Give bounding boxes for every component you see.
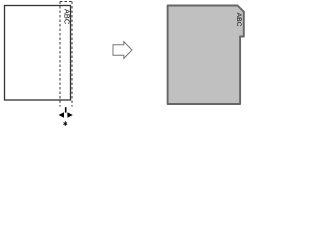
svg-text:ABC: ABC [63,9,72,25]
svg-text:ABC: ABC [235,13,242,27]
